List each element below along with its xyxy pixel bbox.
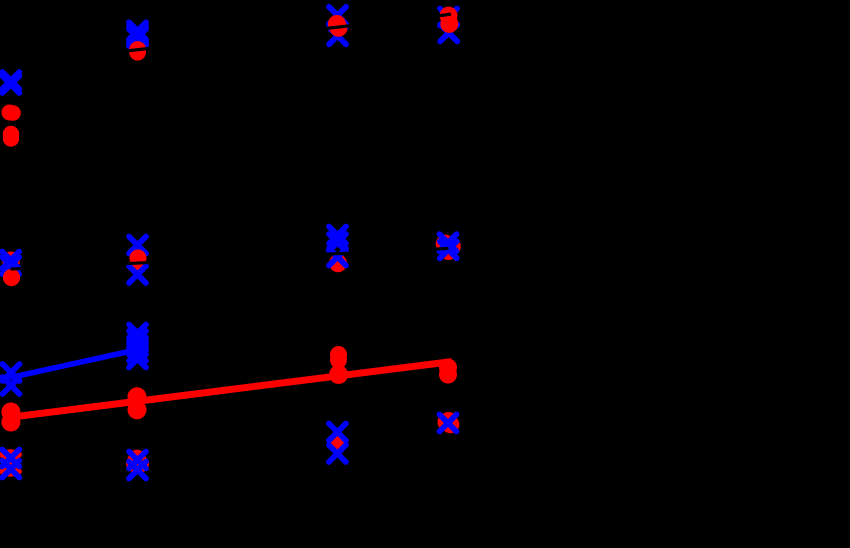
bottom cluster K: blue X pair over xyxy=(329,424,346,463)
cluster G: blue X over red xyxy=(329,249,346,266)
bottom cluster K: red dot, column 3 xyxy=(328,433,347,452)
lower band: red dots column 2 xyxy=(128,387,147,419)
bottom cluster L: blue X over xyxy=(440,415,457,432)
cluster H: blue X pair over xyxy=(440,234,457,258)
red trend line xyxy=(10,362,452,418)
cluster E: red dot behind X, column 1 mid xyxy=(2,252,20,270)
blue trend line xyxy=(9,350,137,378)
black trend line, top band xyxy=(0,13,451,65)
lower band: blue X pair column 1 xyxy=(3,364,20,394)
black trend line, mid band xyxy=(11,248,449,269)
cluster A: blue X stack, column 2 top xyxy=(129,22,146,46)
cluster E: blue X pair xyxy=(2,252,19,275)
cluster F: red dot lower xyxy=(129,257,147,275)
cluster F: blue X lower xyxy=(129,266,146,283)
cluster A: red dot xyxy=(129,41,146,58)
cluster E: red dot below xyxy=(3,269,20,286)
cluster C: blue X stack, column 4 top xyxy=(440,9,457,42)
bottom cluster J: red dots, column 2 xyxy=(126,450,149,473)
cluster F: blue X, column 2 mid xyxy=(129,237,146,254)
bottom cluster I: red dot + red X behind, column 1 xyxy=(2,449,20,477)
cluster G: red dot xyxy=(329,254,347,272)
bottom cluster I: blue X pair xyxy=(2,450,19,478)
cluster G: blue X pair, column 3 mid xyxy=(329,227,346,252)
cluster C: red dots xyxy=(440,7,459,33)
bottom cluster J: blue X pair xyxy=(129,452,146,479)
cluster D: blue X marker, column 1 top xyxy=(2,72,19,93)
cluster H: red dots, column 4 mid xyxy=(436,235,461,261)
bottom cluster L: red dots, column 4 xyxy=(438,412,460,433)
cluster D: red dot 2 xyxy=(3,126,19,147)
lower band: blue X stack column 2 xyxy=(129,325,146,368)
lower band: red dots column 1 xyxy=(1,403,20,432)
cluster D: red dot 1 xyxy=(2,105,21,121)
lower band: red dots column 3 xyxy=(329,346,348,384)
lower band: red dots column 4 (line end) xyxy=(439,359,457,384)
cluster B: red dots xyxy=(328,15,348,37)
cluster F: red dot xyxy=(130,250,147,267)
cluster B: blue X stack, column 3 top xyxy=(329,7,346,45)
